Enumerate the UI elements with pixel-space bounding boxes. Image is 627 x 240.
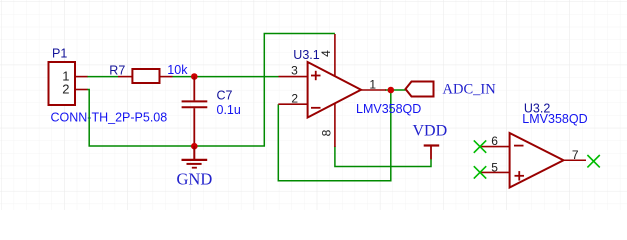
wire feedback: output down, left, up to pin 2	[278, 90, 391, 181]
net flag ADC_IN	[406, 82, 434, 97]
connector P1	[49, 62, 88, 105]
svg-text:7: 7	[572, 148, 579, 162]
svg-text:ADC_IN: ADC_IN	[443, 82, 497, 98]
no-connect X pin 6	[474, 140, 486, 152]
capacitor C7	[182, 77, 208, 147]
svg-text:R7: R7	[109, 63, 125, 77]
power symbol VDD	[424, 146, 440, 160]
svg-text:U3.1: U3.1	[293, 48, 319, 62]
svg-text:10k: 10k	[167, 63, 188, 77]
op-amp U3.1	[278, 34, 386, 147]
svg-text:LMV358QD: LMV358QD	[522, 112, 587, 126]
resistor R7	[118, 69, 173, 83]
svg-text:VDD: VDD	[413, 123, 448, 140]
junction dot at output	[388, 87, 395, 94]
svg-text:4: 4	[319, 50, 333, 57]
op-amp U3.2	[480, 133, 587, 188]
svg-text:C7: C7	[217, 89, 233, 103]
svg-text:P1: P1	[52, 47, 67, 61]
svg-text:3: 3	[291, 64, 298, 78]
junction dot at R7 / C7	[191, 73, 198, 80]
svg-text:2: 2	[291, 92, 298, 106]
no-connect X pin 5	[474, 166, 486, 178]
wire op-amp pin 8 to VDD	[335, 146, 431, 167]
svg-text:5: 5	[491, 161, 498, 175]
svg-text:CONN-TH_2P-P5.08: CONN-TH_2P-P5.08	[51, 111, 168, 125]
svg-text:LMV358QD: LMV358QD	[356, 102, 421, 116]
wire R7 to op-amp pin 3	[173, 76, 279, 78]
wire P1 pin1 to R7	[87, 76, 118, 78]
svg-text:GND: GND	[177, 170, 213, 189]
svg-text:1: 1	[369, 77, 376, 91]
wire op-amp output to flag	[385, 89, 406, 91]
svg-text:6: 6	[491, 134, 498, 148]
svg-text:0.1u: 0.1u	[217, 103, 241, 117]
wire GND net: P1 pin2 down, along bottom, up and over to pin 4	[87, 34, 335, 147]
junction dot at GND tap	[191, 143, 198, 150]
svg-text:8: 8	[320, 129, 334, 136]
svg-text:2: 2	[62, 82, 69, 97]
no-connect X pin 7	[587, 155, 599, 167]
ground symbol	[182, 146, 208, 168]
